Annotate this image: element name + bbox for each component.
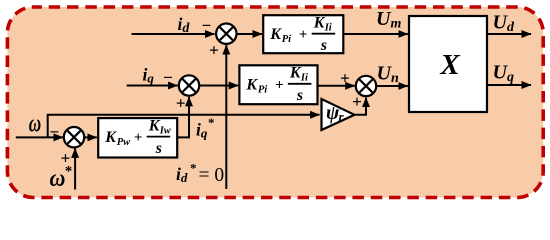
- wire sum1 to PI block 1: [236, 33, 262, 35]
- svg-text:K: K: [104, 129, 117, 146]
- svg-text:Ii: Ii: [300, 73, 308, 84]
- wire U_n: sum3 to X block: [376, 85, 407, 87]
- svg-text:Iw: Iw: [159, 125, 172, 136]
- svg-text:s: s: [155, 140, 162, 157]
- svg-text:+: +: [176, 94, 186, 113]
- summing junction sum1: [216, 24, 236, 44]
- svg-text:−: −: [49, 123, 59, 142]
- svg-text:ω: ω: [29, 109, 41, 137]
- svg-text:+: +: [275, 77, 284, 93]
- summing junction sum4: [64, 127, 84, 147]
- background panel with dashed red border: [7, 7, 543, 198]
- svg-text:Ii: Ii: [324, 22, 332, 33]
- wire i_d input: [132, 33, 215, 35]
- summing junction sum3: [356, 76, 376, 96]
- wire omega input: [16, 136, 63, 138]
- summing junction sum2: [179, 75, 199, 95]
- svg-text:K: K: [245, 76, 258, 93]
- svg-text:Pi: Pi: [282, 34, 291, 45]
- wire omega branch to psi_r: [48, 115, 320, 138]
- wire U_d output: [487, 33, 531, 35]
- wire sum4 to PI block 3: [84, 136, 97, 138]
- svg-text:Pi: Pi: [258, 84, 267, 95]
- wire psi_r to sum3: [354, 98, 366, 115]
- svg-text:s: s: [296, 87, 303, 104]
- wire PI block 2 to sum3: [318, 85, 355, 87]
- svg-text:+: +: [209, 41, 219, 60]
- wire U_m: PI block 1 to X block: [343, 33, 408, 35]
- decoupling block X: [409, 16, 487, 112]
- svg-text:*: *: [208, 115, 215, 130]
- svg-text:X: X: [439, 49, 460, 81]
- svg-text:s: s: [320, 37, 327, 54]
- wire i_q*: PI block 3 to sum2: [177, 97, 189, 137]
- gain block psi_r: [322, 99, 355, 130]
- PI block 3 (speed): K_Pw + K_Iw/s: [98, 117, 177, 157]
- wire i_d*=0 to sum1: [225, 45, 227, 189]
- svg-text:K: K: [269, 26, 282, 43]
- svg-text:+: +: [134, 130, 143, 146]
- svg-text:+: +: [299, 27, 308, 43]
- svg-text:+: +: [340, 69, 350, 88]
- svg-text:*: *: [65, 163, 73, 179]
- svg-text:+: +: [352, 92, 362, 111]
- svg-text:ω: ω: [50, 165, 66, 192]
- wire i_q input: [127, 85, 178, 87]
- svg-text:−: −: [202, 16, 212, 35]
- svg-text:*: *: [190, 161, 197, 176]
- wire sum2 to PI block 2: [199, 85, 238, 87]
- svg-text:= 0: = 0: [199, 165, 225, 186]
- svg-text:−: −: [163, 68, 173, 87]
- svg-text:Pw: Pw: [117, 137, 131, 148]
- PI block 2 (current q-axis): K_Pi + K_Ii/s: [239, 65, 317, 105]
- wire U_q output: [487, 84, 531, 86]
- PI block 1 (current d-axis): K_Pi + K_Ii/s: [263, 14, 343, 54]
- wire omega* input: [74, 148, 76, 189]
